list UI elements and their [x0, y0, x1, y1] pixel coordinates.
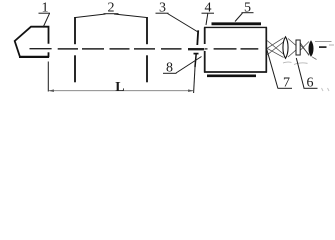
- label 7: [267, 50, 292, 91]
- label 3: [156, 1, 199, 33]
- lens 7 beams converge to rect 6: [288, 39, 296, 58]
- optical axis wire: [30, 47, 327, 49]
- faint line after eye lens: [315, 41, 332, 43]
- gray squiggle under lens 7: [283, 61, 292, 64]
- beams from box exit window 7: [267, 38, 284, 58]
- label 6: [296, 58, 317, 91]
- box 4 (chamber): [204, 27, 267, 72]
- label 1: [39, 1, 51, 28]
- faint marks bottom right: [322, 88, 330, 91]
- dimension line L: [48, 89, 193, 92]
- small tail below eye lens: [312, 57, 317, 60]
- base bar under box: [207, 75, 256, 78]
- laser housing 1: [15, 27, 49, 58]
- label 4: [202, 1, 215, 26]
- extension line from laser: [47, 62, 49, 92]
- svg-text:5: 5: [244, 1, 251, 16]
- svg-text:L: L: [115, 80, 124, 95]
- label 8: [163, 57, 202, 76]
- gray squiggle under rect 6: [294, 63, 308, 65]
- extension line from bar 3: [194, 67, 195, 93]
- faint short dash far right: [329, 44, 334, 46]
- aperture bar 2b: [146, 17, 148, 82]
- scale bar 5 on top of box: [212, 22, 262, 25]
- aperture bar 2a: [74, 17, 76, 82]
- label 2: [76, 1, 147, 18]
- label 5: [235, 1, 254, 22]
- field stop rectangle 6: [296, 40, 300, 55]
- eye lens (filled): [309, 41, 313, 56]
- aperture bar 3: [194, 30, 199, 67]
- collimating lens (biconvex): [283, 37, 288, 59]
- beams rect 6 to eye lens: [300, 42, 309, 56]
